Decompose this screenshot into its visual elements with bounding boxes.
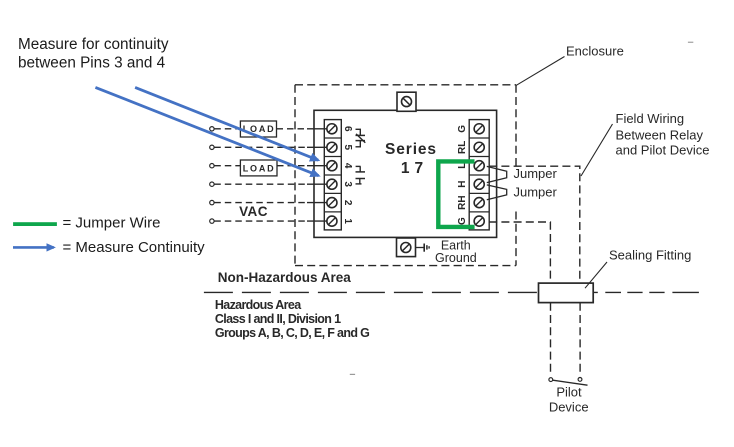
- enclosure (dashed boundary): [295, 85, 516, 266]
- bottom terminal box: [397, 238, 416, 257]
- terminal label RH: [457, 195, 468, 209]
- field wire terminal circle row 4: [210, 164, 214, 168]
- svg-text:H: H: [457, 181, 468, 188]
- jumper wire (green) L to G: [438, 161, 474, 227]
- svg-text:5: 5: [342, 145, 353, 151]
- legend: measure continuity arrow sample: [13, 246, 54, 249]
- svg-text:Field Wiring: Field Wiring: [616, 111, 685, 126]
- TB2 screw H: [474, 179, 484, 189]
- svg-text:= Jumper Wire: = Jumper Wire: [63, 215, 161, 232]
- TB1 screw pin 1: [327, 216, 337, 226]
- jumper loop L-H: [487, 166, 507, 182]
- TB1 screw pin 6: [327, 124, 337, 134]
- field wiring label: [616, 111, 710, 158]
- bottom terminal screw: [401, 243, 411, 253]
- sealing fitting label: [609, 247, 691, 262]
- right terminal strip TB2: [469, 120, 489, 230]
- field wiring dashed run from L terminal: [489, 166, 580, 283]
- left terminal strip TB1: [324, 120, 341, 230]
- field wire terminal circle row 6: [210, 127, 214, 131]
- TB1 screw pin 3: [327, 179, 337, 189]
- svg-text:1: 1: [342, 218, 353, 224]
- wire row 4 (to LOAD): [214, 165, 327, 167]
- pilot device dashed drop right: [579, 303, 581, 376]
- hazardous area boundary line: [204, 291, 699, 293]
- TB1 screw pin 2: [327, 198, 337, 208]
- label VAC: [239, 204, 268, 219]
- svg-text:Measure for continuity: Measure for continuity: [18, 36, 169, 53]
- svg-text:Series: Series: [385, 141, 437, 158]
- svg-text:and Pilot Device: and Pilot Device: [616, 143, 710, 158]
- svg-text:RH: RH: [457, 195, 468, 209]
- enclosure label: [566, 44, 624, 59]
- field wire terminal circle row 1: [210, 219, 214, 223]
- svg-text:= Measure Continuity: = Measure Continuity: [63, 239, 206, 256]
- svg-text:Non-Hazardous Area: Non-Hazardous Area: [218, 270, 352, 285]
- svg-text:Ground: Ground: [435, 251, 477, 265]
- terminal label H: [457, 181, 468, 188]
- measure-continuity arrow to pin 4: [135, 87, 318, 160]
- contact symbol pins 6-5 (normally closed): [356, 129, 366, 147]
- enclosure leader line: [516, 57, 564, 86]
- annotation: Measure for continuity between Pins 3 and 4: [18, 36, 169, 72]
- legend: jumper wire sample: [13, 222, 57, 226]
- pilot device contact right: [578, 378, 582, 382]
- svg-text:between Pins 3 and 4: between Pins 3 and 4: [18, 55, 166, 72]
- top terminal screw: [402, 97, 412, 107]
- label: Series 17: [385, 141, 437, 177]
- terminal label G top: [457, 125, 468, 133]
- earth ground label: [435, 238, 477, 264]
- relay body U1 (Series 17): [314, 110, 497, 237]
- wire row 2: [214, 202, 327, 204]
- load box LOAD2: [240, 160, 277, 176]
- TB2 screw G bottom: [474, 216, 484, 226]
- svg-text:VAC: VAC: [239, 204, 268, 219]
- field wire terminal circle row 3: [210, 182, 214, 186]
- pin number 4: [342, 163, 353, 169]
- pin number 5: [342, 145, 353, 151]
- wire row 1: [214, 220, 327, 222]
- field wiring leader line: [581, 124, 613, 176]
- jumper loop H-RH: [487, 185, 507, 200]
- pilot device dashed drop left: [550, 303, 552, 376]
- svg-text:6: 6: [342, 126, 353, 132]
- label: Hazardous Area block: [215, 298, 369, 340]
- earth ground symbol: [415, 244, 429, 252]
- TB2 screw RL: [474, 142, 484, 152]
- jumper label 2: [514, 184, 558, 199]
- wire row 6 (to LOAD): [214, 128, 327, 130]
- svg-text:2: 2: [342, 200, 353, 206]
- TB1 screw pin 4: [327, 161, 337, 171]
- legend: jumper wire text: [63, 215, 161, 232]
- jumper label 1: [514, 166, 558, 181]
- svg-text:Enclosure: Enclosure: [566, 44, 624, 59]
- sealing fitting leader line: [585, 262, 607, 288]
- svg-text:Jumper: Jumper: [514, 184, 558, 199]
- svg-text:4: 4: [342, 163, 353, 169]
- svg-text:Jumper: Jumper: [514, 166, 558, 181]
- measure-continuity arrow to pin 3: [95, 87, 318, 175]
- pilot device switch blade: [553, 380, 588, 385]
- sealing fitting box: [539, 283, 594, 303]
- wire row 3: [214, 183, 327, 185]
- TB1 screw pin 5: [327, 142, 337, 152]
- svg-text:G: G: [457, 125, 468, 133]
- svg-text:Device: Device: [549, 400, 589, 415]
- terminal label L: [457, 163, 468, 169]
- terminal label RL: [457, 141, 468, 154]
- svg-text:17: 17: [401, 160, 428, 177]
- svg-text:Hazardous Area: Hazardous Area: [215, 298, 302, 312]
- pin number 6: [342, 126, 353, 132]
- svg-text:Sealing Fitting: Sealing Fitting: [609, 247, 691, 262]
- svg-text:Groups A, B, C, D, E, F and G: Groups A, B, C, D, E, F and G: [215, 326, 369, 340]
- field wiring dashed run from G terminal: [489, 222, 550, 283]
- svg-text:Class I and II, Division 1: Class I and II, Division 1: [215, 312, 341, 326]
- legend: measure continuity text: [63, 239, 206, 256]
- svg-text:G: G: [457, 217, 468, 225]
- TB2 screw G top: [474, 124, 484, 134]
- svg-text:3: 3: [342, 181, 353, 187]
- svg-text:RL: RL: [457, 141, 468, 154]
- stray mark top right: [688, 42, 693, 43]
- pin number 1: [342, 218, 353, 224]
- contact symbol pins 4-3 (normally open): [356, 166, 366, 184]
- label: Non-Hazardous Area: [218, 270, 352, 285]
- terminal label G bottom: [457, 217, 468, 225]
- wire row 5: [214, 146, 327, 148]
- svg-text:Pilot: Pilot: [556, 385, 582, 400]
- field wire terminal circle row 2: [210, 200, 214, 204]
- field wire terminal circle row 5: [210, 145, 214, 149]
- svg-text:LOAD: LOAD: [243, 163, 276, 173]
- pilot device label: [549, 385, 589, 415]
- load box LOAD1: [240, 121, 276, 137]
- pin number 2: [342, 200, 353, 206]
- pin number 3: [342, 181, 353, 187]
- top terminal box: [397, 92, 416, 111]
- TB2 screw RH: [474, 198, 484, 208]
- TB2 screw L: [474, 161, 484, 171]
- pilot device contact left: [549, 378, 553, 382]
- svg-text:Between Relay: Between Relay: [616, 127, 704, 142]
- stray mark center: [350, 374, 355, 375]
